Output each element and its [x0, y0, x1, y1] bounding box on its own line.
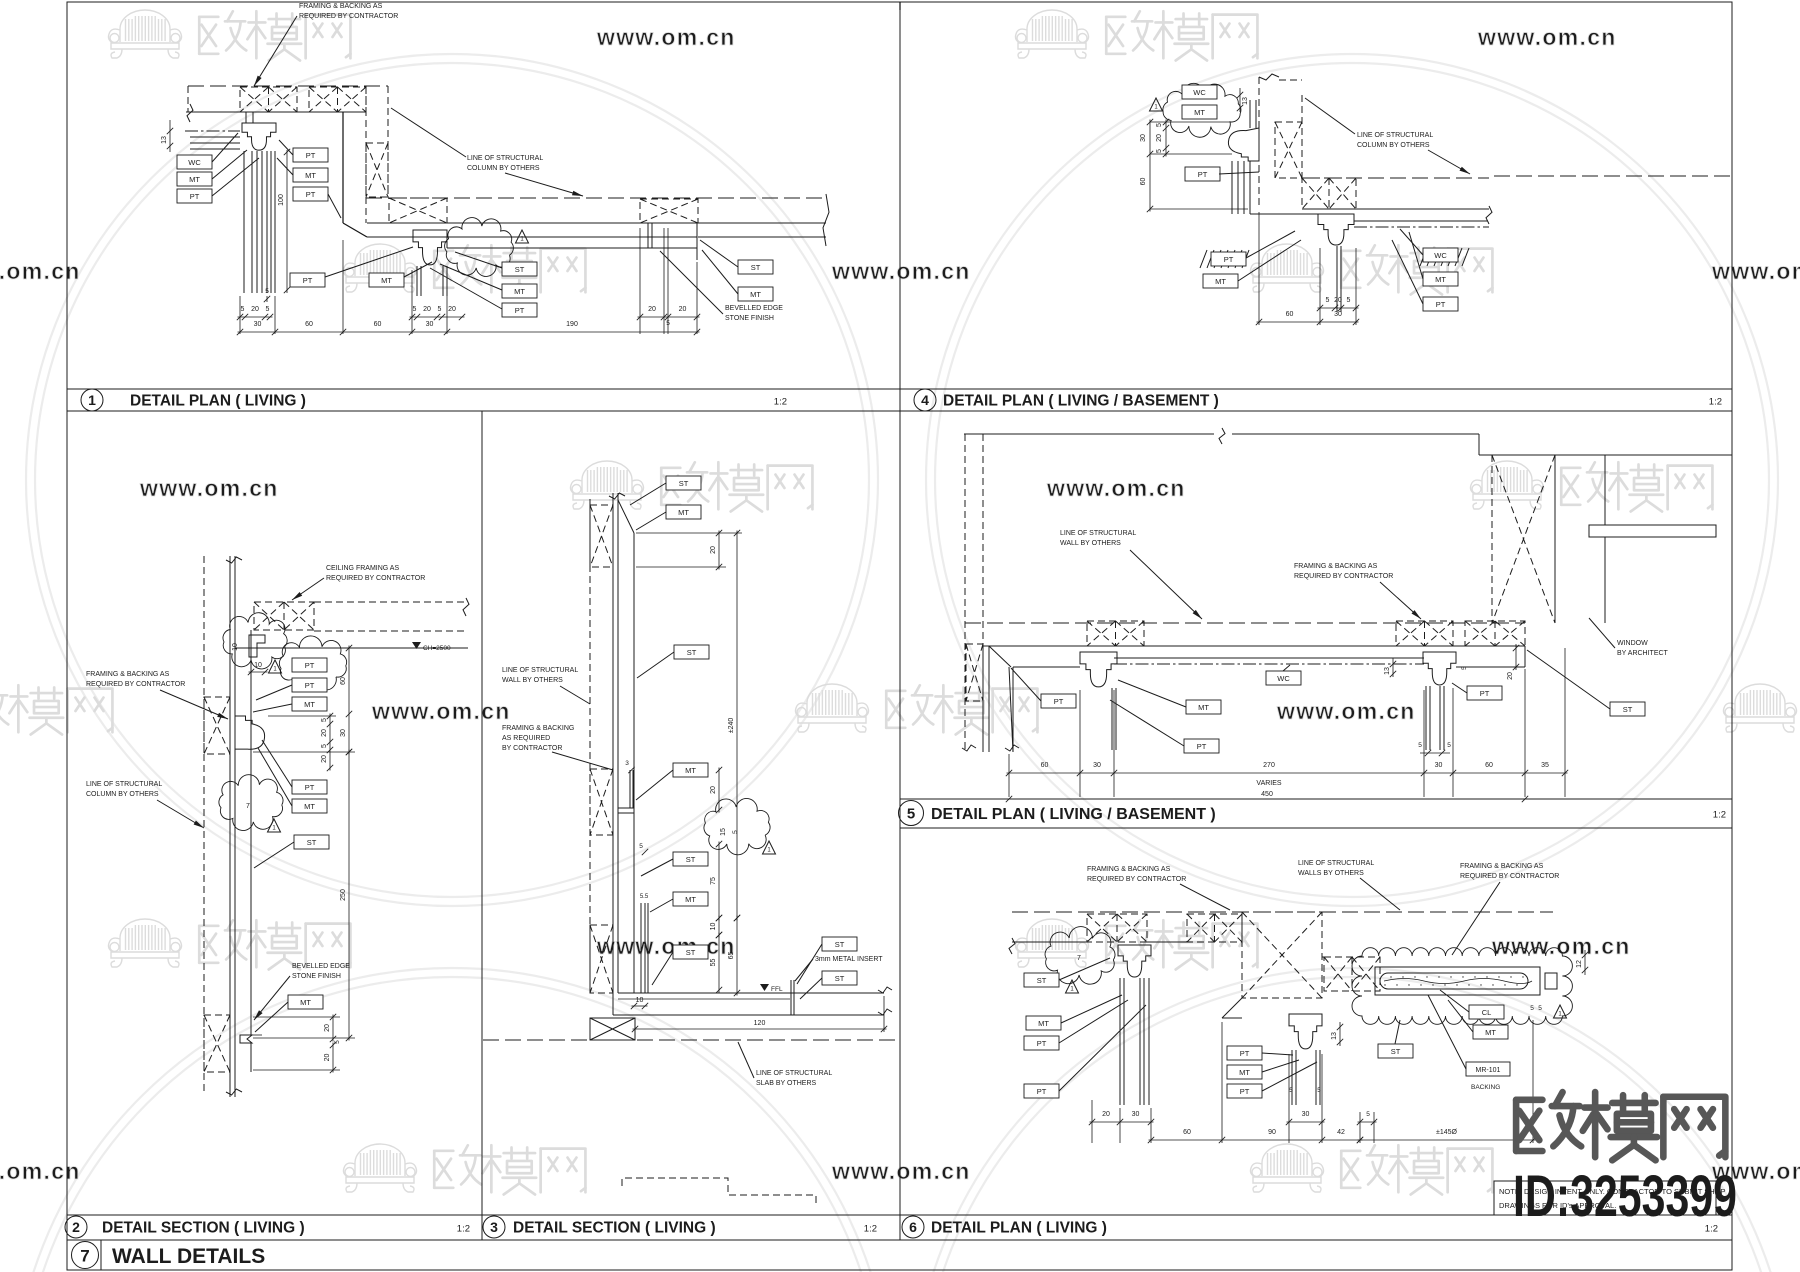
svg-text:30: 30: [340, 729, 347, 737]
p3 dim 20 mid: [718, 768, 720, 813]
p4 band bottom: [1302, 208, 1489, 210]
p6 label ST center: [1378, 1044, 1413, 1058]
svg-text:www.om.cn: www.om.cn: [1477, 24, 1617, 50]
p1 break right: [823, 194, 829, 246]
p1 left slab dashdot: [185, 130, 240, 132]
svg-text:6: 6: [909, 1219, 917, 1235]
p4 top moulding: [1228, 128, 1259, 161]
svg-text:4: 4: [921, 392, 929, 408]
p1 band B hatch box C: [389, 198, 447, 223]
p1 stone face lines: [446, 237, 448, 248]
p1 labels PT MT lower: [290, 273, 325, 287]
p6 ext verticals: [1091, 1100, 1093, 1143]
svg-text:30: 30: [1132, 1111, 1140, 1118]
p1 lower moulding profile: [413, 230, 447, 265]
svg-text:MT: MT: [1215, 277, 1226, 286]
svg-text:60: 60: [1485, 762, 1493, 769]
p3 dims lower: [718, 916, 720, 938]
svg-text:42: 42: [1337, 1129, 1345, 1136]
svg-text:±145Ø: ±145Ø: [1436, 1129, 1458, 1136]
svg-text:ST: ST: [686, 855, 696, 864]
p4 column hatch: [1275, 122, 1302, 178]
p2 label ST: [294, 835, 329, 849]
p4 band end break: [1486, 206, 1492, 224]
title panel 1: [81, 389, 103, 411]
svg-text:20: 20: [1102, 1111, 1110, 1118]
p6 hatch boxes left: [1087, 914, 1147, 942]
svg-text:FRAMING & BACKING AS: FRAMING & BACKING AS: [86, 671, 170, 678]
svg-text:COLUMN BY OTHERS: COLUMN BY OTHERS: [467, 165, 540, 172]
p1 left break: [187, 104, 193, 122]
svg-text:60: 60: [305, 321, 313, 328]
svg-text:MT: MT: [1194, 108, 1205, 117]
svg-text:30: 30: [1140, 134, 1147, 142]
svg-text:20: 20: [321, 729, 328, 737]
svg-text:90: 90: [1268, 1129, 1276, 1136]
svg-text:ST: ST: [686, 948, 696, 957]
title panel 3: [483, 1216, 505, 1238]
p1 dim 100: [286, 150, 288, 293]
p2 stone joint: [240, 1035, 252, 1043]
svg-text:5.5: 5.5: [640, 894, 649, 900]
svg-text:5: 5: [1289, 1087, 1293, 1094]
p3 dim 75: [718, 842, 720, 921]
svg-text:5: 5: [413, 306, 417, 313]
p4 right labels WC MT PT: [1420, 248, 1427, 266]
svg-text:1:2: 1:2: [1713, 810, 1726, 821]
p1 top moulding profile: [242, 123, 276, 150]
p2 crown moulding: [235, 716, 265, 749]
p2 wall bottom break: [226, 1089, 242, 1095]
svg-text:FRAMING & BACKING AS: FRAMING & BACKING AS: [1087, 866, 1171, 873]
svg-text:LINE OF STRUCTURAL: LINE OF STRUCTURAL: [1298, 860, 1374, 867]
svg-text:100: 100: [278, 194, 285, 206]
svg-text:PT: PT: [305, 681, 315, 690]
p5 band bottom: [983, 645, 1525, 647]
svg-text:55: 55: [710, 959, 717, 967]
svg-text:MT: MT: [381, 276, 392, 285]
p3 cloud 15: [704, 798, 770, 854]
svg-text:60: 60: [340, 677, 347, 685]
svg-text:FRAMING & BACKING AS: FRAMING & BACKING AS: [1460, 863, 1544, 870]
svg-text:www.om.cn: www.om.cn: [0, 258, 81, 284]
p1 framing leader: [254, 16, 297, 86]
svg-text:250: 250: [340, 889, 347, 901]
svg-text:30: 30: [254, 321, 262, 328]
svg-text:PT: PT: [305, 661, 315, 670]
svg-text:MT: MT: [685, 766, 696, 775]
svg-text:BEVELLED EDGE: BEVELLED EDGE: [725, 305, 783, 312]
p3 floor lines: [618, 992, 884, 994]
svg-text:WALLS BY OTHERS: WALLS BY OTHERS: [1298, 870, 1364, 877]
svg-text:±240: ±240: [728, 718, 735, 734]
p5 verticals below profiles: [1111, 688, 1113, 750]
svg-text:20: 20: [1156, 134, 1163, 142]
p1 band B bottom line: [367, 222, 826, 224]
svg-text:MT: MT: [300, 998, 311, 1007]
title panel 5: [899, 801, 924, 826]
p5 labels: [1041, 694, 1076, 708]
p2 warning triangle b: [268, 819, 281, 832]
svg-text:STONE FINISH: STONE FINISH: [292, 973, 341, 980]
p2 warning triangle a: [269, 660, 282, 673]
p5 ext verticals: [1008, 754, 1010, 797]
svg-text:www.om.cn: www.om.cn: [139, 475, 279, 501]
svg-text:MT: MT: [304, 802, 315, 811]
p6 dim row 2: [1149, 1139, 1363, 1141]
p2 dim 10: [249, 671, 268, 673]
svg-text:PT: PT: [306, 151, 316, 160]
p6 labels center: [1227, 1046, 1262, 1060]
svg-text:5: 5: [321, 718, 328, 722]
p2 labels PT MT second: [292, 780, 327, 794]
svg-text:PT: PT: [1224, 255, 1234, 264]
svg-text:www.om.cn: www.om.cn: [596, 933, 736, 959]
p3 labels ST right: [822, 937, 857, 951]
svg-text:CH=2500: CH=2500: [423, 645, 451, 652]
svg-text:5: 5: [438, 306, 442, 313]
p5 profile 1: [1080, 652, 1117, 687]
svg-text:60: 60: [1140, 178, 1147, 186]
svg-text:65: 65: [728, 952, 735, 960]
p5 left wall break: [962, 745, 976, 751]
p6 verticals below moulding2: [1291, 1050, 1293, 1105]
svg-text:PT: PT: [1480, 689, 1490, 698]
svg-text:LINE OF STRUCTURAL: LINE OF STRUCTURAL: [1357, 132, 1433, 139]
svg-text:LINE OF STRUCTURAL: LINE OF STRUCTURAL: [756, 1070, 832, 1077]
svg-text:60: 60: [1041, 762, 1049, 769]
p4 lower moulding: [1318, 214, 1354, 245]
svg-text:20: 20: [324, 1054, 331, 1062]
svg-text:DETAIL SECTION ( LIVING ): DETAIL SECTION ( LIVING ): [102, 1220, 305, 1237]
svg-text:REQUIRED BY CONTRACTOR: REQUIRED BY CONTRACTOR: [86, 681, 185, 688]
svg-text:30: 30: [1334, 311, 1342, 318]
p5 profile 2: [1423, 652, 1456, 685]
svg-text:75: 75: [710, 877, 717, 885]
big omwang logo: [1516, 1092, 1725, 1160]
p2 ceiling band break: [463, 598, 469, 616]
svg-text:MT: MT: [678, 508, 689, 517]
p6 labels left: [1024, 973, 1059, 987]
svg-text:60: 60: [1183, 1129, 1191, 1136]
svg-text:WC: WC: [188, 158, 201, 167]
svg-text:20: 20: [448, 306, 456, 313]
p2 cloud 10: [223, 613, 287, 669]
p6 cloud 7: [1045, 927, 1115, 985]
svg-text:MT: MT: [189, 175, 200, 184]
p2 label MT bottom: [288, 995, 323, 1009]
svg-text:ST: ST: [835, 974, 845, 983]
p1 band B top dashed structural line: [366, 197, 826, 199]
p1 dim 13 left: [169, 120, 171, 152]
svg-text:PT: PT: [305, 783, 315, 792]
svg-text:20: 20: [679, 306, 687, 313]
svg-text:20: 20: [423, 306, 431, 313]
p6 verticals below moulding1: [1119, 978, 1121, 1105]
svg-text:60: 60: [1286, 311, 1294, 318]
p3 label ST bottom: [673, 945, 708, 959]
svg-text:MT: MT: [1435, 275, 1446, 284]
p2 cloud 7: [219, 775, 283, 831]
p3 FFL marker: [760, 984, 769, 991]
p4 band hatch: [1302, 178, 1356, 209]
title panel 2: [65, 1216, 87, 1238]
svg-text:MT: MT: [750, 290, 761, 299]
svg-text:FRAMING & BACKING: FRAMING & BACKING: [502, 725, 574, 732]
svg-text:PT: PT: [1037, 1039, 1047, 1048]
svg-text:5: 5: [321, 744, 328, 748]
svg-text:13: 13: [1242, 97, 1249, 105]
p4 band top dashed: [1302, 177, 1489, 179]
p3 label MT lower: [673, 892, 708, 906]
p3 labels ST MT top: [666, 476, 701, 490]
p2 structural column dashed line: [203, 556, 205, 1093]
p2 hatch upper: [204, 697, 230, 754]
p3 dashed future outline: [622, 1178, 816, 1205]
svg-text:5: 5: [1156, 149, 1163, 153]
p1 revision cloud: [445, 218, 514, 277]
svg-text:WALL BY OTHERS: WALL BY OTHERS: [502, 677, 563, 684]
svg-text:5: 5: [241, 306, 245, 313]
svg-text:www.om.cn: www.om.cn: [1276, 698, 1416, 724]
p6 warning triangle right: [1554, 1005, 1567, 1018]
svg-text:WALL DETAILS: WALL DETAILS: [112, 1245, 265, 1268]
svg-text:www.om.cn: www.om.cn: [0, 1158, 81, 1184]
title panel 6: [902, 1216, 924, 1238]
svg-text:15: 15: [720, 828, 727, 836]
p4 warning triangle: [1150, 98, 1163, 111]
svg-text:5: 5: [1317, 1087, 1321, 1094]
p1 finish verticals below moulding: [243, 151, 245, 293]
svg-text:20: 20: [710, 786, 717, 794]
svg-text:PT: PT: [306, 190, 316, 199]
svg-text:5: 5: [639, 843, 643, 850]
svg-text:5: 5: [1530, 1005, 1534, 1012]
p4 left dims: [1165, 120, 1167, 157]
svg-text:1:2: 1:2: [774, 397, 787, 408]
svg-text:ST: ST: [515, 265, 525, 274]
svg-text:REQUIRED BY CONTRACTOR: REQUIRED BY CONTRACTOR: [1087, 876, 1186, 883]
p1 top wall band dashed: [188, 85, 388, 87]
svg-text:2: 2: [72, 1219, 80, 1235]
svg-text:5: 5: [732, 830, 739, 834]
svg-text:REQUIRED BY CONTRACTOR: REQUIRED BY CONTRACTOR: [299, 13, 398, 20]
svg-text:BEVELLED EDGE: BEVELLED EDGE: [292, 963, 350, 970]
p2 dims right inner: [329, 714, 331, 771]
p2 hatch lower: [204, 1015, 230, 1072]
p2 stone face: [250, 630, 252, 1035]
svg-text:ST: ST: [751, 263, 761, 272]
svg-text:LINE OF STRUCTURAL: LINE OF STRUCTURAL: [1060, 530, 1136, 537]
svg-text:ST: ST: [687, 648, 697, 657]
svg-text:www.om.cn: www.om.cn: [831, 1158, 971, 1184]
p1 labels ST MT right: [738, 260, 773, 274]
p3 slab: [613, 1014, 884, 1016]
svg-text:30: 30: [426, 321, 434, 328]
svg-text:270: 270: [1263, 762, 1275, 769]
svg-text:5: 5: [1347, 297, 1351, 304]
svg-text:www.om.cn: www.om.cn: [596, 24, 736, 50]
svg-text:ST: ST: [1391, 1047, 1401, 1056]
p6 labels right: [1469, 1005, 1504, 1019]
svg-text:MT: MT: [304, 700, 315, 709]
p2 cloud PT: [279, 636, 346, 691]
p2 dims right outer: [348, 646, 350, 755]
svg-text:5: 5: [266, 306, 270, 313]
p2 wall lines: [229, 556, 231, 1097]
svg-text:BY ARCHITECT: BY ARCHITECT: [1617, 650, 1669, 657]
svg-text:20: 20: [710, 546, 717, 554]
svg-text:5: 5: [1418, 742, 1422, 749]
p1 dim row small mid: [410, 316, 465, 318]
p6 band lines: [1012, 941, 1087, 943]
svg-text:DETAIL PLAN ( LIVING / BASE: DETAIL PLAN ( LIVING / BASEMENT ): [943, 393, 1219, 410]
svg-text:3mm METAL INSERT: 3mm METAL INSERT: [815, 956, 883, 963]
p4 cloud WC MT: [1163, 83, 1241, 137]
p6 moulding 2: [1289, 1014, 1322, 1049]
svg-text:13: 13: [1384, 667, 1391, 675]
p3 label MT mid: [673, 763, 708, 777]
p5 face lines: [1013, 666, 1080, 668]
svg-text:5: 5: [265, 288, 269, 295]
svg-text:10: 10: [636, 997, 644, 1004]
svg-text:13: 13: [161, 136, 168, 144]
svg-text:5: 5: [334, 1040, 341, 1044]
p3 dim 120: [633, 1028, 887, 1030]
p3 skirting: [640, 903, 642, 993]
p6 big column hatch: [1242, 912, 1322, 998]
svg-text:20: 20: [324, 1024, 331, 1032]
svg-text:ST: ST: [835, 940, 845, 949]
p6 warning triangle left: [1066, 980, 1079, 993]
svg-text:LINE OF STRUCTURAL: LINE OF STRUCTURAL: [502, 667, 578, 674]
p6 column corner: [1222, 998, 1242, 1018]
p1 dim extension lines: [239, 296, 241, 334]
svg-text:5: 5: [907, 806, 915, 823]
svg-text:CEILING FRAMING AS: CEILING FRAMING AS: [326, 565, 399, 572]
svg-text:30: 30: [1435, 762, 1443, 769]
svg-text:PT: PT: [1037, 1087, 1047, 1096]
svg-text:20: 20: [648, 306, 656, 313]
svg-text:DETAIL PLAN ( LIVING ): DETAIL PLAN ( LIVING ): [931, 1220, 1107, 1237]
p1 main dim chain: [238, 331, 700, 333]
svg-text:7: 7: [1077, 955, 1081, 962]
svg-text:1: 1: [88, 392, 96, 408]
p3 wall dashed line: [589, 499, 591, 993]
p1 wall face corner: [342, 112, 344, 223]
svg-text:www.om.cn: www.om.cn: [1711, 258, 1800, 284]
p1 left finish lines: [190, 136, 240, 138]
watermark tiled logos: [109, 10, 182, 58]
svg-text:3: 3: [625, 760, 629, 767]
p3 label ST lower: [673, 852, 708, 866]
p5 interior left return: [982, 646, 984, 752]
svg-text:35: 35: [1541, 762, 1549, 769]
svg-text:PT: PT: [1054, 697, 1064, 706]
p3 wall top break: [609, 493, 625, 499]
p6 slab inner rect: [1375, 967, 1540, 995]
svg-text:REQUIRED BY CONTRACTOR: REQUIRED BY CONTRACTOR: [1294, 573, 1393, 580]
p5 top boundary line: [964, 433, 1214, 435]
svg-text:FRAMING & BACKING AS: FRAMING & BACKING AS: [299, 3, 383, 10]
svg-text:PT: PT: [515, 306, 525, 315]
p6 dim row 1: [1090, 1121, 1154, 1123]
svg-text:BACKING: BACKING: [1471, 1084, 1500, 1091]
svg-text:5: 5: [1461, 666, 1468, 670]
svg-text:ST: ST: [1037, 976, 1047, 985]
svg-text:PT: PT: [1240, 1087, 1250, 1096]
svg-text:COLUMN BY OTHERS: COLUMN BY OTHERS: [1357, 142, 1430, 149]
svg-text:COLUMN BY OTHERS: COLUMN BY OTHERS: [86, 791, 159, 798]
p3 label ST mid: [674, 645, 709, 659]
p5 band top dashed: [965, 622, 1525, 624]
p1 top band hatch box A: [240, 87, 297, 112]
svg-text:WALL BY OTHERS: WALL BY OTHERS: [1060, 540, 1121, 547]
p1 band B hatch box D: [640, 199, 698, 223]
title wall details: [72, 1242, 99, 1269]
p2 ceiling dashed band: [314, 601, 465, 603]
svg-text:WC: WC: [1277, 674, 1290, 683]
svg-text:MT: MT: [1198, 703, 1209, 712]
svg-text:5: 5: [1366, 1111, 1370, 1118]
p4 corner finish horizontals: [1250, 213, 1318, 215]
p1 labels ST MT PT cloud: [502, 262, 537, 276]
svg-text:BY CONTRACTOR: BY CONTRACTOR: [502, 745, 562, 752]
svg-text:SLAB BY OTHERS: SLAB BY OTHERS: [756, 1080, 817, 1087]
svg-text:VARIES: VARIES: [1256, 780, 1281, 787]
svg-text:30: 30: [1302, 1111, 1310, 1118]
svg-text:5: 5: [1538, 1005, 1542, 1012]
svg-text:60: 60: [374, 321, 382, 328]
p4 structural dashed line right: [1494, 175, 1730, 177]
p6 slab right end: [1545, 973, 1557, 989]
svg-text:20: 20: [321, 755, 328, 763]
p2 ceiling marker CH: [412, 642, 421, 649]
svg-text:CL: CL: [1482, 1008, 1492, 1017]
p2 ceiling hatch: [254, 602, 314, 630]
p3 right break: [878, 987, 892, 993]
svg-text:PT: PT: [1198, 170, 1208, 179]
p2 dim 250: [348, 750, 350, 1041]
svg-text:ST: ST: [307, 838, 317, 847]
svg-text:120: 120: [754, 1020, 766, 1027]
svg-text:MT: MT: [1038, 1019, 1049, 1028]
p1 dim row small right: [638, 316, 700, 318]
p4 label PT: [1185, 167, 1220, 181]
p3 metal insert: [790, 980, 792, 1015]
p3 warning triangle: [763, 841, 776, 854]
note box: [1494, 1181, 1716, 1215]
svg-text:1:2: 1:2: [457, 1224, 470, 1235]
svg-text:www.om.cn: www.om.cn: [831, 258, 971, 284]
p1 dim row small left: [238, 316, 273, 318]
title panel 4: [914, 389, 936, 411]
p1 labels WC MT PT left: [177, 155, 212, 169]
p6 top dashed line: [1012, 911, 1553, 913]
p4 column dashed: [1258, 77, 1260, 209]
svg-text:WINDOW: WINDOW: [1617, 640, 1648, 647]
svg-text:20: 20: [1334, 297, 1342, 304]
p5 right column: [1491, 455, 1493, 623]
svg-text:7: 7: [246, 803, 250, 810]
p5 dim row 1: [1007, 772, 1568, 774]
p6 stone slab cloud: [1352, 948, 1572, 1025]
p2 dims bottom right: [332, 1015, 334, 1042]
p6 moulding 1: [1118, 945, 1151, 977]
p2 labels PT MT: [292, 678, 327, 692]
svg-text:WC: WC: [1193, 88, 1206, 97]
svg-text:1:2: 1:2: [1709, 397, 1722, 408]
